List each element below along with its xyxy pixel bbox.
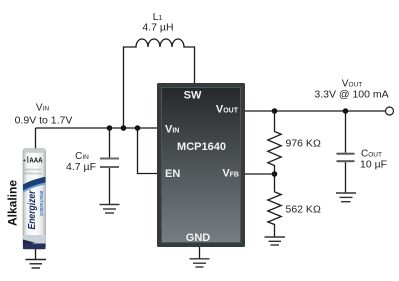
resistor R1 976 KOhm	[268, 111, 281, 174]
svg-text:4.7 µH: 4.7 µH	[142, 22, 173, 34]
ground below IC	[190, 259, 210, 267]
ground below R2	[265, 237, 286, 245]
wire battery positive to VIN rail	[35, 128, 37, 149]
resistor R2 562 KOhm	[268, 174, 281, 237]
svg-text:976 KΩ: 976 KΩ	[286, 138, 321, 150]
wire L1 left to VIN rail	[123, 46, 125, 128]
wire VIN rail	[36, 127, 158, 129]
label VIN	[15, 103, 73, 127]
svg-text:SW: SW	[184, 90, 202, 102]
label COUT	[360, 149, 387, 171]
label L1	[142, 12, 173, 34]
svg-text:+: +	[23, 158, 27, 164]
svg-text:10 µF: 10 µF	[360, 159, 387, 171]
svg-text:BATTERY 1.5V L92: BATTERY 1.5V L92	[25, 172, 42, 176]
node EN junction	[135, 125, 141, 131]
battery lower shading	[23, 235, 46, 244]
battery BT1 Energizer AAA	[23, 149, 46, 250]
ground below battery	[26, 260, 47, 269]
node L1 junction	[121, 125, 127, 131]
battery bottom wrap	[23, 240, 35, 246]
label VOUT	[314, 79, 388, 101]
wire VFB	[245, 173, 275, 175]
svg-text:AAA: AAA	[29, 158, 43, 165]
label CIN	[66, 151, 96, 173]
svg-text:4.7 µF: 4.7 µF	[66, 161, 96, 173]
svg-text:Alkaline: Alkaline	[6, 180, 20, 226]
svg-text:EN: EN	[165, 168, 180, 180]
ground below COUT	[336, 193, 356, 202]
battery blue swoosh	[23, 177, 46, 191]
wire EN from VIN rail	[138, 128, 158, 174]
node VFB junction	[272, 171, 278, 177]
inductor L1	[124, 39, 195, 47]
svg-text:MCP1640: MCP1640	[177, 141, 226, 153]
capacitor CIN	[100, 128, 119, 205]
wire L1 right to SW pin	[194, 46, 196, 84]
ground below CIN	[100, 205, 120, 214]
node CIN junction	[107, 125, 113, 131]
svg-text:562 KΩ: 562 KΩ	[286, 204, 321, 216]
svg-text:Energizer: Energizer	[27, 190, 38, 230]
svg-text:GND: GND	[186, 232, 211, 244]
svg-text:0.9V to 1.7V: 0.9V to 1.7V	[15, 115, 73, 127]
svg-text:ULTIMATE LITHIUM: ULTIMATE LITHIUM	[39, 191, 44, 216]
capacitor COUT	[337, 111, 355, 193]
wire battery negative to ground	[35, 249, 37, 260]
output terminal	[386, 107, 394, 115]
wire GND pin	[199, 247, 201, 259]
svg-text:3.3V @ 100 mA: 3.3V @ 100 mA	[314, 89, 388, 101]
wire VOUT rail	[245, 110, 387, 112]
node R1 top junction	[272, 108, 278, 114]
node COUT junction	[343, 108, 349, 114]
op-amp U1 MCP1640	[157, 83, 245, 247]
